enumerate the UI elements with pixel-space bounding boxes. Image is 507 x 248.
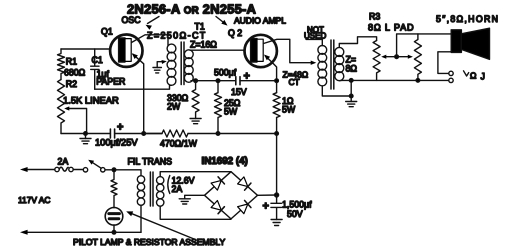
svg-text:R1: R1 <box>66 57 77 67</box>
resistor 470Ω/1W <box>162 130 188 137</box>
arrow 117VAC neutral rail <box>23 231 141 233</box>
wire fuse to switch <box>74 169 83 171</box>
resistor R2 1.5K linear <box>58 80 65 134</box>
wire bias node <box>196 80 277 82</box>
svg-text:+: + <box>244 71 250 83</box>
svg-text:PILOT LAMP & RESISTOR ASSEMBLY: PILOT LAMP & RESISTOR ASSEMBLY <box>73 237 225 247</box>
svg-text:15V: 15V <box>231 87 247 97</box>
output transformer secondary bottom lead <box>339 79 449 81</box>
speaker horn driver <box>451 30 461 53</box>
output transformer primary bottom to ground rail <box>322 86 351 96</box>
svg-text:680Ω: 680Ω <box>64 68 86 78</box>
resistor 1Ω 5W <box>273 93 280 118</box>
wire lamp to neutral <box>113 225 115 232</box>
svg-text:OSC: OSC <box>122 15 142 25</box>
wire speaker to jack tip <box>438 52 451 74</box>
output transformer secondary winding <box>335 47 344 56</box>
transistor Q2 circle <box>245 35 277 67</box>
capacitor C1 <box>91 49 99 89</box>
node Q1 emitter rail junction <box>142 132 146 136</box>
wire T1 secondary top to Q2 base <box>190 49 244 51</box>
FIL TRANS primary winding <box>137 176 144 183</box>
switch <box>83 168 87 172</box>
svg-text:Q 2: Q 2 <box>228 28 242 38</box>
brace 12.6V <box>168 176 170 194</box>
resistor 25Ω 5W <box>215 81 222 134</box>
svg-text:2A: 2A <box>172 184 183 194</box>
node secondary bottom rail junction <box>349 79 353 83</box>
node 500μf emitter junction <box>275 79 279 83</box>
capacitor 1500μf <box>271 195 282 220</box>
svg-text:470Ω/1W: 470Ω/1W <box>160 139 198 149</box>
wire bottom rail left <box>61 133 162 135</box>
diode D2 <box>238 177 248 187</box>
svg-text:117V AC: 117V AC <box>18 195 50 205</box>
output transformer secondary top lead <box>339 37 376 48</box>
ground 1500μf <box>271 219 282 221</box>
svg-text:5″,8Ω,HORN: 5″,8Ω,HORN <box>436 14 499 24</box>
node 330 junction <box>194 79 198 83</box>
diode D1 <box>211 180 221 190</box>
svg-text:+: + <box>117 122 123 134</box>
node lamp neutral <box>112 231 116 235</box>
transistor Q2 bar <box>251 39 257 62</box>
node xfmr ground junction <box>349 94 353 98</box>
ground below bottom rail <box>85 134 87 139</box>
output transformer core <box>330 40 332 89</box>
svg-text:50V: 50V <box>287 209 303 219</box>
T1 CT ground arrow <box>157 62 163 68</box>
ground bridge <box>185 195 205 199</box>
wire switch to FIL TRANS <box>106 170 141 176</box>
FIL TRANS secondary bottom lead <box>160 206 231 219</box>
Q2 emitter arrow <box>265 56 276 93</box>
output transformer not-used stub <box>306 39 322 45</box>
wire bridge to B+ <box>258 194 277 196</box>
svg-text:IN1692 (4): IN1692 (4) <box>202 156 248 167</box>
ground below 330Ω <box>190 118 201 120</box>
resistor 330Ω 2W <box>192 81 199 119</box>
svg-text:CT: CT <box>289 77 300 87</box>
svg-text:1.5K LINEAR: 1.5K LINEAR <box>63 95 119 106</box>
svg-text:2A: 2A <box>58 157 69 167</box>
node pilot branch <box>112 168 116 172</box>
FIL TRANS core <box>149 172 151 206</box>
svg-text:2W: 2W <box>167 102 181 112</box>
node 25Ω rail junction <box>216 132 220 136</box>
potentiometer L-pad left <box>373 41 380 81</box>
arrow 117VAC hot <box>23 169 55 171</box>
FIL TRANS secondary top lead <box>160 172 231 177</box>
svg-text:5W: 5W <box>224 107 238 117</box>
svg-text:FIL TRANS: FIL TRANS <box>128 157 173 167</box>
wire C1 feedback to T1 bottom <box>95 85 172 89</box>
wire B+ drop <box>276 134 278 196</box>
svg-text:8Ω L PAD: 8Ω L PAD <box>368 22 414 32</box>
pilot lamp <box>105 208 123 226</box>
node 25Ω junction <box>216 79 220 83</box>
svg-text:AUDIO AMPL: AUDIO AMPL <box>234 16 286 26</box>
bridge wires <box>205 172 258 219</box>
svg-text:Ω: Ω <box>470 70 477 80</box>
Q1 emitter arrow <box>133 54 144 133</box>
fuse 2A <box>55 167 59 171</box>
node wiper junction <box>395 55 399 59</box>
svg-text:R2: R2 <box>66 79 77 89</box>
wire top rail Q1 base <box>61 48 111 50</box>
arrow title to Q1 <box>148 17 160 24</box>
capacitor 100μf/25V <box>109 129 111 138</box>
FIL TRANS primary bottom lead <box>140 205 142 232</box>
potentiometer L-pad right <box>414 34 421 81</box>
jack contact symbol <box>464 71 469 76</box>
capacitor 500μf <box>235 77 237 85</box>
output transformer primary winding <box>318 46 327 55</box>
node B+ rail junction <box>275 132 279 136</box>
speaker horn cone <box>461 28 489 59</box>
wire wiper to speaker <box>397 34 452 57</box>
jack sleeve terminal <box>449 78 453 82</box>
svg-text:PAPER: PAPER <box>96 77 125 87</box>
transistor Q1 circle <box>110 35 142 67</box>
T1 secondary winding <box>184 50 193 59</box>
wire wiper line <box>384 56 411 58</box>
svg-text:C1: C1 <box>92 55 103 65</box>
svg-text:J: J <box>481 72 485 82</box>
wire T1 secondary bottom <box>191 80 196 82</box>
wire R2 wiper <box>67 109 87 134</box>
arrow title to Q2 <box>216 17 226 25</box>
Q1 collector wire <box>132 35 169 46</box>
diode D4 <box>238 204 248 214</box>
node ground junction <box>84 132 88 136</box>
wire xfmr ground link <box>350 80 352 96</box>
svg-text:Q1: Q1 <box>101 27 113 37</box>
svg-text:R3: R3 <box>369 12 380 22</box>
T1 core <box>180 42 182 85</box>
svg-text:500μf: 500μf <box>214 67 237 77</box>
node B+ filter junction <box>275 193 279 197</box>
Q2 collector wire <box>264 39 314 62</box>
arrow pilot assembly <box>129 212 195 239</box>
diode D3 <box>211 201 221 211</box>
svg-text:5W: 5W <box>282 105 296 115</box>
transistor Q1 bar <box>119 38 125 62</box>
wire bottom rail mid <box>144 133 277 135</box>
node right pot bottom <box>416 79 420 83</box>
resistor pilot dropping <box>111 170 117 208</box>
svg-text:1,500μf: 1,500μf <box>282 200 312 210</box>
wire 1Ω to rail <box>276 118 278 134</box>
T1 primary winding <box>167 44 176 53</box>
svg-text:100μf/25V: 100μf/25V <box>95 138 138 148</box>
svg-text:Z=16Ω: Z=16Ω <box>190 40 217 50</box>
ground output transformer <box>350 96 352 102</box>
jack tip terminal <box>449 71 453 75</box>
resistor R1 <box>58 49 65 80</box>
svg-text:8Ω: 8Ω <box>346 64 358 74</box>
FIL TRANS secondary winding <box>157 177 164 184</box>
svg-text:+: + <box>263 201 269 213</box>
